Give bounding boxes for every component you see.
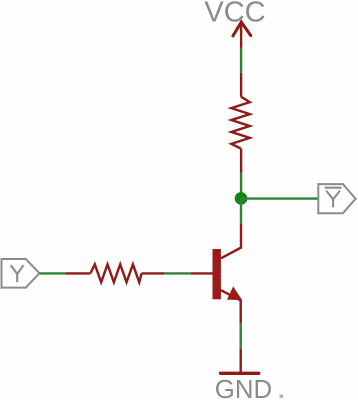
node OUT junction dot <box>235 192 248 205</box>
transistor Q1 emitter lead (red diagonal) <box>221 290 241 300</box>
input label Y <box>11 265 24 282</box>
resistor R2 (base resistor, horizontal zigzag) <box>90 264 141 282</box>
input port connector Y <box>2 259 40 288</box>
wire to resistor R1 top (red segment) <box>240 73 242 97</box>
output label Y with overbar <box>325 188 342 208</box>
wire emitter net (green segment) <box>239 323 241 349</box>
wire to resistor R2 (red segment) <box>66 272 90 274</box>
svg-text:GND: GND <box>215 376 272 400</box>
wire VCC arrow to resistor R1 (red segment) <box>240 23 242 48</box>
transistor Q1 base bar <box>213 249 221 299</box>
output port connector Y-bar <box>318 184 355 213</box>
stray mark after GND <box>280 395 284 399</box>
ground GND bar <box>221 372 259 375</box>
svg-text:VCC: VCC <box>204 0 265 29</box>
transistor Q1 collector lead (red) <box>221 223 241 258</box>
wire R1 bottom to node (red segment) <box>240 149 242 173</box>
wire to node OUT (green segment) <box>240 173 242 199</box>
resistor R1 (collector pull-up, vertical zigzag) <box>231 97 250 149</box>
wire R2 to base (red segment) <box>142 272 165 274</box>
wire VCC net (green segment) <box>240 48 242 73</box>
wire base net (green segment) <box>164 272 190 274</box>
VCC power arrow <box>233 22 251 36</box>
wire input port to R2 (green segment) <box>40 272 67 274</box>
wire to ground bar (red segment) <box>239 349 241 372</box>
wire into Q1 base (red segment) <box>191 272 213 274</box>
transistor Q1 emitter arrowhead <box>228 287 242 299</box>
wire collector to node OUT (green segment) <box>240 199 242 224</box>
wire emitter to GND (red segment) <box>239 300 241 323</box>
wire node OUT to output port (green) <box>241 197 318 199</box>
